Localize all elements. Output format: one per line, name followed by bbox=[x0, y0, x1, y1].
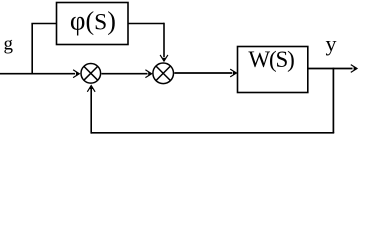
wire: main input bus from left edge to summer 1 bbox=[0, 73, 75, 75]
wire: phi output right then down to summer 2 bbox=[128, 23, 164, 25]
wire: W output to right edge bbox=[308, 68, 353, 70]
svg-text:y: y bbox=[326, 31, 337, 56]
wire: branch riser up from bus at x=32 bbox=[31, 24, 33, 75]
wire: summer2 to block W bbox=[174, 72, 232, 74]
svg-text:W(S): W(S) bbox=[248, 47, 295, 72]
svg-text:g: g bbox=[4, 34, 14, 55]
arrowhead into summer 2 top bbox=[160, 55, 168, 62]
wire: feedback rise to summer 1 bbox=[90, 89, 92, 134]
arrowhead into summer 1 left bbox=[73, 70, 80, 78]
wire: summer1 to summer2 bbox=[102, 73, 148, 75]
svg-text:φ(S): φ(S) bbox=[70, 6, 116, 36]
summer 2 (circle with X) bbox=[153, 63, 174, 84]
arrowhead into W block bbox=[230, 69, 237, 77]
wire: riser top to phi block input bbox=[31, 23, 56, 25]
block phi(S) bbox=[57, 3, 129, 45]
wire: feedback bottom run bbox=[91, 132, 334, 134]
arrowhead into summer 1 bottom bbox=[87, 84, 95, 91]
summer 1 (circle with X) bbox=[81, 64, 101, 84]
wire: feedback tap down from output bbox=[332, 68, 334, 133]
arrowhead into summer 2 left bbox=[145, 70, 152, 78]
block W(S) bbox=[238, 47, 308, 93]
arrowhead output bbox=[351, 65, 358, 73]
